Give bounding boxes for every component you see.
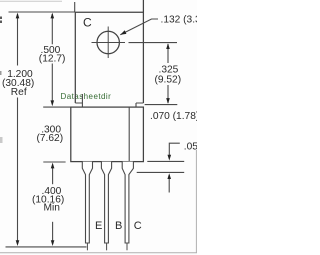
pin 3 lead tick <box>126 244 128 251</box>
pin 1 lead tick <box>86 244 88 251</box>
arrowhead up .05 <box>167 173 171 179</box>
arrowhead down .325 <box>166 98 170 104</box>
top extension line <box>9 11 76 13</box>
svg-text:.132 (3.35): .132 (3.35) <box>161 14 198 25</box>
arrowhead down .500 <box>51 100 55 106</box>
arrowhead up .400 <box>51 163 55 169</box>
dim line .500 lower <box>51 64 53 104</box>
mounting hole <box>97 31 119 53</box>
svg-text:C: C <box>134 220 142 232</box>
pin 2 (B) outline <box>101 162 111 243</box>
svg-text:(12.7): (12.7) <box>39 54 66 65</box>
bottom extension line <box>6 246 87 248</box>
dim tail below up arrow .05 <box>168 175 170 193</box>
pin 2 lead tick <box>106 244 108 251</box>
arrowhead up .325 <box>166 43 170 49</box>
extension line body top left <box>43 106 71 108</box>
dim line .400 upper <box>52 165 54 185</box>
svg-text:E: E <box>95 220 102 232</box>
dim line 1.200 lower <box>17 98 19 245</box>
arrowhead on hole leader <box>120 30 126 35</box>
hole crosshair horizontal <box>92 42 126 44</box>
svg-text:(9.52): (9.52) <box>155 75 182 86</box>
extension line shoulder bottom right <box>137 171 185 173</box>
package tab outline <box>75 0 143 103</box>
extension line body bottom left <box>43 161 65 163</box>
svg-text:C: C <box>83 16 92 30</box>
arrowhead up .500 <box>51 13 55 19</box>
dim line .325 upper <box>167 44 169 63</box>
body outline <box>71 107 144 162</box>
svg-text:(7.62): (7.62) <box>37 133 64 144</box>
svg-text:.070 (1.78): .070 (1.78) <box>150 111 197 122</box>
dim line .500 upper <box>51 14 53 44</box>
svg-text:.05: .05 <box>184 142 197 153</box>
pin 1 (E) outline <box>82 162 92 243</box>
leader for .05 label <box>169 143 180 158</box>
dim line .400 lower <box>52 222 54 244</box>
tab bottom left step <box>75 94 82 107</box>
extension line body bottom right <box>147 160 184 162</box>
watermark Datasheetdir <box>61 92 112 102</box>
extension line tab bottom right <box>145 104 178 106</box>
page border right <box>195 150 197 253</box>
arrowhead up 1.200 <box>16 13 20 19</box>
arrowhead down 1.200 <box>16 240 20 246</box>
arrowhead down .05 <box>168 155 172 161</box>
page border top remnant <box>0 0 62 2</box>
extension line at hole center right <box>129 42 178 44</box>
left edge text remnant dots <box>0 17 3 144</box>
pin 3 (C) outline <box>122 162 133 243</box>
arrowhead down .400 <box>51 240 55 246</box>
dim line 1.200 upper <box>17 14 19 66</box>
hole crosshair vertical <box>107 27 109 59</box>
leader line to .132 label <box>120 19 158 35</box>
tick above tab top-left corner <box>74 2 76 12</box>
svg-text:Ref: Ref <box>11 87 27 98</box>
page border bottom <box>0 252 197 254</box>
body inner parting line <box>128 107 130 162</box>
tab bottom right step <box>136 103 143 107</box>
svg-text:B: B <box>115 220 122 232</box>
dim line .325 lower <box>167 85 169 103</box>
svg-text:Min: Min <box>44 203 60 214</box>
